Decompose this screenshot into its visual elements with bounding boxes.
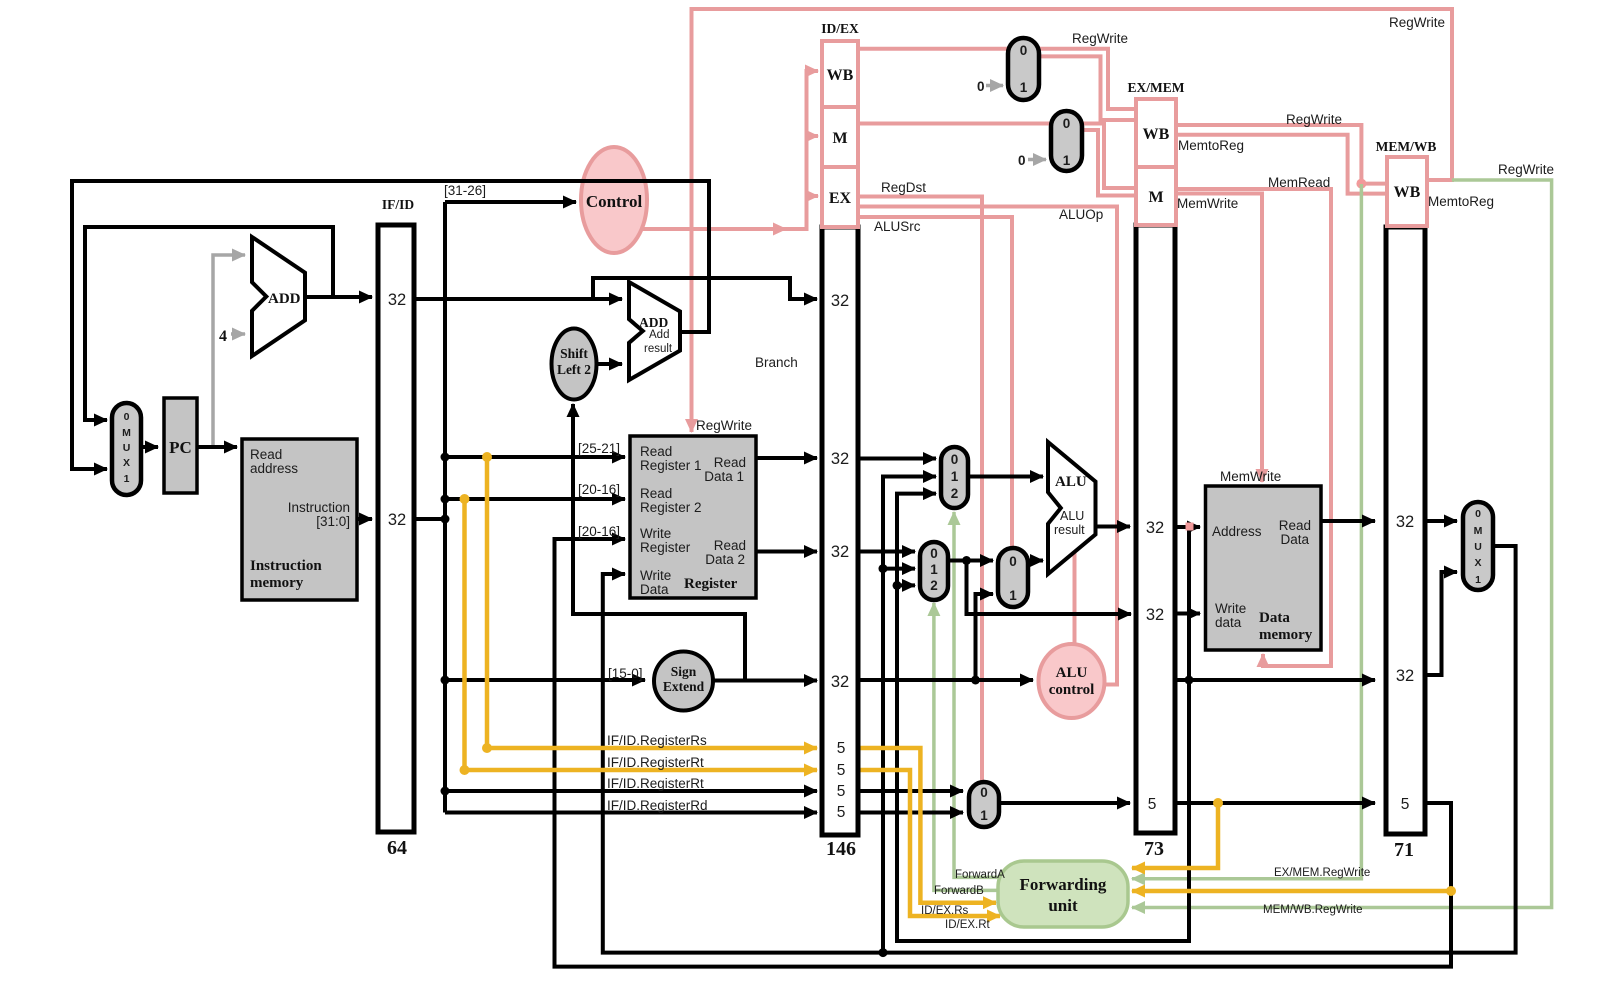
svg-text:32: 32 (388, 511, 406, 529)
svg-text:Write: Write (640, 568, 671, 583)
svg-text:RegWrite: RegWrite (1498, 162, 1554, 177)
svg-text:Left 2: Left 2 (557, 362, 591, 377)
svg-text:data: data (1215, 615, 1242, 630)
svg-text:MemWrite: MemWrite (1177, 196, 1238, 211)
svg-text:Read: Read (250, 447, 282, 462)
svg-text:MemWrite: MemWrite (1220, 469, 1281, 484)
svg-text:146: 146 (826, 838, 856, 860)
svg-text:0: 0 (1020, 43, 1028, 58)
svg-text:5: 5 (1401, 796, 1410, 813)
svg-text:Data 2: Data 2 (705, 552, 745, 567)
svg-text:32: 32 (1146, 606, 1164, 624)
svg-text:U: U (123, 442, 131, 454)
svg-text:[20-16]: [20-16] (578, 482, 620, 497)
svg-text:32: 32 (831, 292, 849, 310)
svg-text:[25-21]: [25-21] (578, 441, 620, 456)
svg-text:Data: Data (1259, 610, 1290, 626)
svg-text:64: 64 (387, 837, 407, 859)
svg-text:Data: Data (640, 582, 669, 597)
svg-text:Control: Control (586, 192, 643, 211)
svg-text:Read: Read (714, 455, 746, 470)
svg-text:ForwardB: ForwardB (934, 885, 984, 897)
svg-text:[31-26]: [31-26] (444, 183, 486, 198)
svg-text:1: 1 (951, 469, 959, 484)
svg-text:0: 0 (1009, 554, 1017, 569)
svg-text:0: 0 (980, 785, 988, 800)
svg-text:ID/EX.Rt: ID/EX.Rt (945, 919, 991, 931)
svg-text:5: 5 (837, 762, 846, 779)
svg-text:ALUOp: ALUOp (1059, 207, 1103, 222)
svg-text:Instruction: Instruction (288, 500, 350, 515)
svg-text:5: 5 (837, 804, 846, 821)
svg-text:Sign: Sign (671, 664, 697, 679)
svg-text:MemtoReg: MemtoReg (1428, 194, 1494, 209)
svg-text:RegWrite: RegWrite (1389, 15, 1445, 30)
svg-text:WB: WB (1394, 184, 1421, 201)
svg-text:32: 32 (831, 673, 849, 691)
svg-text:X: X (1474, 557, 1481, 569)
svg-text:Read: Read (1279, 518, 1311, 533)
svg-text:EX: EX (829, 190, 852, 207)
svg-text:Data 1: Data 1 (704, 469, 744, 484)
svg-text:MEM/WB: MEM/WB (1376, 139, 1437, 154)
svg-text:[15-0]: [15-0] (608, 666, 643, 681)
svg-text:ID/EX: ID/EX (821, 21, 859, 36)
svg-text:ADD: ADD (268, 291, 301, 307)
svg-text:1: 1 (1009, 588, 1017, 603)
svg-text:0: 0 (124, 411, 130, 423)
svg-text:Write: Write (640, 526, 671, 541)
svg-text:IF/ID.RegisterRt: IF/ID.RegisterRt (607, 755, 704, 770)
svg-text:M: M (1148, 189, 1163, 206)
svg-text:Read: Read (714, 538, 746, 553)
svg-text:Shift: Shift (560, 346, 588, 361)
svg-text:ALUSrc: ALUSrc (874, 219, 921, 234)
svg-text:memory: memory (250, 575, 304, 591)
svg-text:1: 1 (1063, 153, 1071, 168)
svg-text:5: 5 (837, 783, 846, 800)
svg-text:0: 0 (930, 546, 938, 561)
svg-text:ADD: ADD (639, 315, 668, 330)
svg-text:ID/EX.Rs: ID/EX.Rs (921, 905, 969, 917)
svg-text:X: X (123, 457, 130, 469)
svg-text:M: M (1474, 525, 1483, 537)
svg-text:0: 0 (977, 79, 985, 94)
svg-text:IF/ID: IF/ID (382, 197, 415, 212)
svg-text:0: 0 (1063, 116, 1071, 131)
svg-text:Instruction: Instruction (250, 558, 322, 574)
svg-text:32: 32 (1396, 513, 1414, 531)
svg-text:M: M (122, 427, 131, 439)
svg-text:RegWrite: RegWrite (1286, 112, 1342, 127)
svg-text:MemtoReg: MemtoReg (1178, 138, 1244, 153)
svg-text:MemRead: MemRead (1268, 175, 1330, 190)
svg-text:1: 1 (980, 808, 988, 823)
svg-text:32: 32 (831, 450, 849, 468)
svg-text:Extend: Extend (663, 679, 705, 694)
svg-text:Read: Read (640, 486, 672, 501)
svg-text:MEM/WB.RegWrite: MEM/WB.RegWrite (1263, 904, 1362, 916)
svg-text:Add: Add (649, 329, 669, 341)
svg-text:0: 0 (951, 452, 959, 467)
svg-text:U: U (1474, 541, 1482, 553)
svg-text:0: 0 (1475, 508, 1481, 520)
svg-text:Data: Data (1280, 532, 1309, 547)
svg-text:4: 4 (219, 328, 227, 345)
svg-text:Write: Write (1215, 601, 1246, 616)
svg-text:32: 32 (388, 291, 406, 309)
svg-text:ALU: ALU (1055, 474, 1087, 490)
svg-text:WB: WB (1143, 126, 1170, 143)
svg-text:ALU: ALU (1056, 665, 1088, 681)
svg-text:ForwardA: ForwardA (955, 869, 1005, 881)
svg-text:5: 5 (1148, 796, 1157, 813)
svg-text:Register 1: Register 1 (640, 458, 702, 473)
svg-text:1: 1 (124, 473, 130, 485)
svg-text:RegWrite: RegWrite (696, 418, 752, 433)
svg-text:32: 32 (1396, 667, 1414, 685)
svg-text:PC: PC (169, 438, 192, 457)
svg-text:Register: Register (684, 576, 738, 592)
svg-text:0: 0 (1018, 153, 1026, 168)
svg-text:71: 71 (1394, 839, 1414, 861)
svg-text:1: 1 (1020, 80, 1028, 95)
svg-text:5: 5 (837, 740, 846, 757)
svg-text:WB: WB (827, 67, 854, 84)
svg-text:32: 32 (1146, 519, 1164, 537)
svg-text:Register 2: Register 2 (640, 500, 702, 515)
svg-text:Register: Register (640, 540, 691, 555)
svg-text:RegDst: RegDst (881, 180, 926, 195)
svg-text:32: 32 (831, 543, 849, 561)
svg-text:result: result (1054, 523, 1085, 537)
svg-text:M: M (832, 130, 847, 147)
svg-text:memory: memory (1259, 627, 1313, 643)
svg-text:RegWrite: RegWrite (1072, 31, 1128, 46)
svg-text:1: 1 (930, 562, 938, 577)
svg-text:Forwarding: Forwarding (1020, 875, 1107, 894)
svg-text:[31:0]: [31:0] (316, 514, 350, 529)
svg-text:EX/MEM.RegWrite: EX/MEM.RegWrite (1274, 867, 1370, 879)
svg-text:IF/ID.RegisterRd: IF/ID.RegisterRd (607, 798, 708, 813)
svg-text:2: 2 (930, 578, 938, 593)
svg-text:Branch: Branch (755, 355, 798, 370)
svg-text:ALU: ALU (1060, 509, 1084, 523)
svg-text:1: 1 (1475, 574, 1481, 586)
svg-text:IF/ID.RegisterRs: IF/ID.RegisterRs (607, 733, 707, 748)
svg-text:2: 2 (951, 486, 959, 501)
svg-text:73: 73 (1144, 838, 1164, 860)
svg-text:Address: Address (1212, 524, 1262, 539)
svg-text:control: control (1049, 682, 1095, 698)
svg-text:IF/ID.RegisterRt: IF/ID.RegisterRt (607, 776, 704, 791)
svg-text:[20-16]: [20-16] (578, 524, 620, 539)
svg-text:result: result (644, 343, 673, 355)
svg-text:EX/MEM: EX/MEM (1128, 80, 1185, 95)
svg-text:address: address (250, 461, 298, 476)
svg-text:unit: unit (1048, 896, 1078, 915)
svg-text:Read: Read (640, 444, 672, 459)
